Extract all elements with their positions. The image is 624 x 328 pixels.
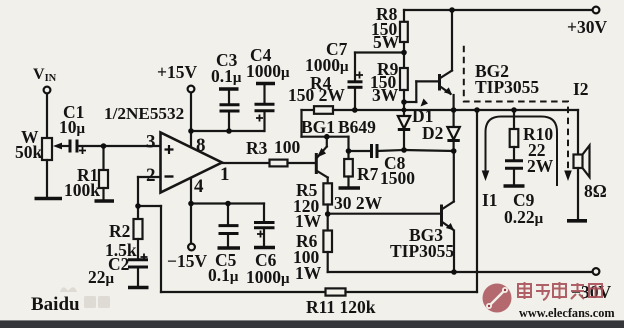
svg-text:1/2NE5532: 1/2NE5532 [104,104,184,123]
svg-text:−15V: −15V [167,251,207,271]
svg-text:3W: 3W [372,85,399,105]
svg-text:1: 1 [220,164,230,185]
svg-text:8: 8 [196,135,206,156]
svg-text:150 2W: 150 2W [288,85,345,105]
svg-text:+15V: +15V [157,62,197,82]
svg-text:2W: 2W [527,156,554,176]
svg-text:R2: R2 [109,221,130,241]
svg-text:I1: I1 [482,190,498,210]
svg-text:1W: 1W [295,211,322,231]
svg-text:50k: 50k [15,142,43,162]
svg-text:R3: R3 [246,138,268,158]
svg-text:1500: 1500 [380,168,415,188]
svg-text:BG1: BG1 [301,117,335,137]
svg-text:www.elecfans.com: www.elecfans.com [519,306,615,320]
svg-text:8Ω: 8Ω [584,181,607,201]
svg-text:I2: I2 [573,79,589,99]
svg-text:2: 2 [146,165,156,186]
svg-text:100: 100 [274,137,301,157]
svg-text:100k: 100k [64,180,100,200]
svg-text:5W: 5W [373,32,400,52]
svg-text:30 2W: 30 2W [334,193,383,213]
svg-text:4: 4 [194,176,204,197]
svg-text:+30V: +30V [567,17,607,37]
svg-text:3: 3 [146,132,156,153]
svg-text:TIP3055: TIP3055 [390,241,454,261]
svg-text:1W: 1W [295,263,322,283]
svg-text:D2: D2 [422,123,443,143]
svg-text:Baidu: Baidu [31,294,80,315]
svg-text:TIP3055: TIP3055 [475,77,539,97]
svg-text:R7: R7 [357,164,379,184]
svg-text:R11 120k: R11 120k [306,297,376,317]
svg-text:B649: B649 [338,117,376,137]
